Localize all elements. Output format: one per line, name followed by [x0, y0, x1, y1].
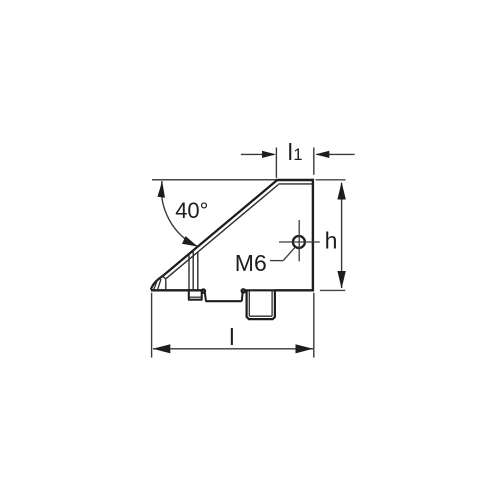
- h bottom extension line: [320, 289, 345, 291]
- tenon inner right edge: [271, 291, 273, 316]
- tip vertical edge: [165, 279, 167, 290]
- bottom edge right segment: [275, 289, 314, 291]
- tip nose edge line 2: [158, 279, 161, 290]
- svg-text:M6: M6: [235, 250, 267, 276]
- M6 hole vertical centerline: [298, 220, 300, 261]
- angle arc top arrowhead: [157, 181, 165, 198]
- svg-text:40°: 40°: [175, 198, 208, 223]
- recessed bottom edge: [206, 300, 242, 302]
- h top extension line: [316, 179, 346, 181]
- l1 left extension line: [275, 148, 277, 178]
- l left extension line: [151, 293, 153, 358]
- tenon inner left edge: [248, 291, 250, 316]
- l1 left dimension shaft: [241, 153, 274, 155]
- l dimension line: [153, 348, 313, 350]
- angle arc bottom arrowhead: [182, 236, 198, 247]
- h bottom arrowhead: [337, 271, 345, 289]
- middle vertical edge v2: [192, 250, 194, 290]
- M6 hole horizontal centerline: [279, 241, 320, 243]
- middle vertical edge v3: [197, 252, 199, 290]
- l right arrowhead: [296, 344, 314, 353]
- l1 right extension line: [313, 148, 315, 175]
- tip nose edge line 1: [154, 280, 158, 289]
- foot bottom inner edge: [190, 296, 202, 298]
- middle vertical edge v1: [188, 254, 190, 290]
- step up edge before tenon: [241, 293, 244, 302]
- sloped face inner edge: [166, 185, 279, 279]
- svg-text:l: l: [288, 139, 293, 165]
- top face of part: [276, 179, 314, 181]
- angle extension line (horizontal, left of part): [152, 179, 277, 181]
- left shoulder bump of tenon area: [242, 289, 245, 292]
- foot bottom outer edge: [188, 299, 203, 301]
- angle arc 40deg: [161, 181, 197, 247]
- foot left edge: [188, 290, 190, 300]
- tenon outer contour: [247, 290, 275, 319]
- svg-text:1: 1: [293, 146, 302, 164]
- h top arrowhead: [337, 182, 345, 200]
- top face inner edge: [278, 183, 312, 185]
- tip rounded nose contour: [151, 276, 163, 290]
- M6 leader line diagonal: [283, 247, 295, 261]
- bottom edge over tenon: [245, 289, 275, 291]
- foot right edge: [201, 291, 203, 300]
- svg-text:l: l: [229, 324, 234, 350]
- l1 left arrowhead: [262, 151, 276, 158]
- M6 hole circle: [293, 236, 305, 248]
- l1 right arrowhead: [315, 151, 329, 158]
- h dimension line: [341, 183, 343, 288]
- l1 right dimension shaft: [317, 153, 355, 155]
- svg-text:h: h: [325, 228, 338, 254]
- tenon inner bottom edge: [249, 315, 272, 317]
- foot right shoulder bump: [202, 290, 205, 293]
- step down edge after foot: [205, 292, 206, 301]
- M6 leader line horizontal: [270, 260, 283, 262]
- bottom edge left segment: [151, 289, 203, 291]
- l left arrowhead: [153, 344, 171, 353]
- l right extension line: [313, 293, 315, 358]
- slope end tick at tip: [162, 276, 165, 279]
- sloped face outer edge (40 deg): [162, 180, 276, 276]
- right edge of part: [312, 179, 314, 291]
